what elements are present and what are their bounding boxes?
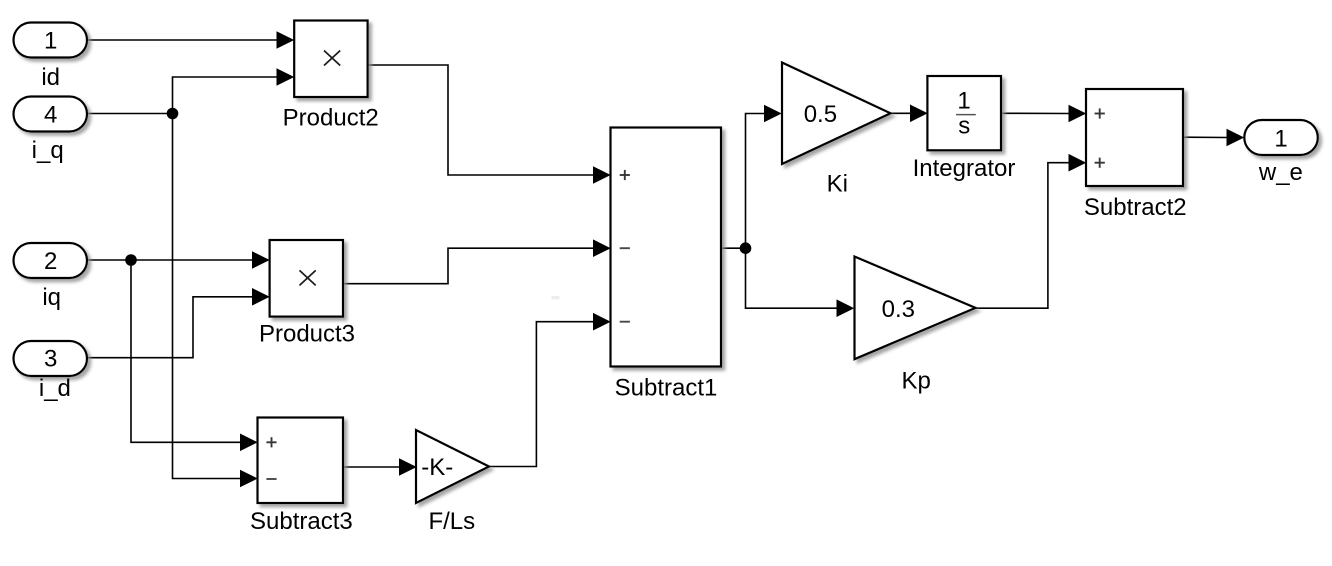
sum block Subtract2 xyxy=(1086,89,1183,186)
svg-text:Subtract2: Subtract2 xyxy=(1084,194,1187,221)
wire Kp out to Subtract2 in2 xyxy=(976,163,1070,309)
svg-text:s: s xyxy=(958,112,970,139)
minus sign Subtract3 xyxy=(266,478,276,480)
wire junction C up to Ki xyxy=(746,114,765,249)
svg-text:4: 4 xyxy=(44,101,57,128)
svg-text:2: 2 xyxy=(44,248,57,275)
gain block Ki xyxy=(782,63,891,165)
svg-text:1: 1 xyxy=(1274,126,1287,153)
wire Subtract3 out to F/Ls xyxy=(343,466,400,468)
sum block Subtract3 xyxy=(258,418,344,504)
svg-text:-K-: -K- xyxy=(421,454,453,481)
minus sign Subtract1 in3 xyxy=(620,321,630,323)
svg-text:F/Ls: F/Ls xyxy=(428,508,475,535)
multiply sign of Product2 xyxy=(324,51,340,66)
svg-text:i_d: i_d xyxy=(39,375,71,402)
svg-text:Subtract1: Subtract1 xyxy=(615,375,718,402)
node A junction dot xyxy=(167,108,179,120)
wire Integrator out to Subtract2 in1 xyxy=(1001,112,1069,114)
svg-text:1: 1 xyxy=(44,28,57,55)
wire junction B down to Subtract3 plus input xyxy=(131,260,241,442)
wire Subtract2 out to output port w_e xyxy=(1183,136,1227,138)
multiply sign of Product3 xyxy=(300,270,316,285)
svg-text:0.5: 0.5 xyxy=(804,101,837,128)
plus sign Subtract2 in2 xyxy=(1095,158,1105,168)
wire port3 to Product3 in2 xyxy=(87,297,253,358)
wire port2 to Product3 in1 xyxy=(87,259,253,261)
wire port4 to junction A xyxy=(87,113,173,115)
node B junction dot xyxy=(125,254,137,266)
wire Product2 out to Subtract1 in1 xyxy=(368,65,594,175)
wire port1 to Product2 in1 xyxy=(87,39,277,41)
sum block Subtract1 xyxy=(611,128,722,367)
wire junction C down to Kp xyxy=(746,248,838,308)
wire junction A up to Product2 in2 xyxy=(173,77,278,114)
wire junction A down to Subtract3 minus input xyxy=(173,114,241,479)
svg-text:i_q: i_q xyxy=(32,137,64,164)
svg-text:1: 1 xyxy=(957,87,970,114)
fraction bar xyxy=(956,114,976,116)
svg-text:Product3: Product3 xyxy=(259,321,355,348)
svg-text:0.3: 0.3 xyxy=(882,296,915,323)
wire F/Ls out to Subtract1 in3 xyxy=(489,322,594,467)
svg-text:w_e: w_e xyxy=(1258,159,1303,186)
wire Ki out to Integrator xyxy=(891,112,911,114)
svg-text:Integrator: Integrator xyxy=(913,155,1016,182)
inport 4 xyxy=(14,97,88,132)
integrator block U=1/s xyxy=(927,76,1001,150)
gain block Kp xyxy=(855,257,976,360)
plus sign Subtract1 in1 xyxy=(620,170,630,180)
product block Product3 xyxy=(270,240,343,317)
svg-text:Kp: Kp xyxy=(902,368,931,395)
inport 1 xyxy=(14,23,88,58)
wire Subtract1 out to junction C xyxy=(721,247,746,249)
wire Product3 out to Subtract1 in2 xyxy=(343,248,594,284)
product block Product2 xyxy=(294,21,367,98)
plus sign Subtract2 in1 xyxy=(1095,108,1105,118)
gain block F/Ls xyxy=(416,430,489,503)
svg-text:Product2: Product2 xyxy=(283,104,379,131)
outport 1 w_e xyxy=(1244,120,1318,155)
svg-text:Ki: Ki xyxy=(827,171,848,198)
svg-text:3: 3 xyxy=(44,346,57,373)
svg-text:iq: iq xyxy=(42,284,61,311)
svg-text:id: id xyxy=(41,64,60,91)
svg-text:Subtract3: Subtract3 xyxy=(250,508,353,535)
node C junction dot xyxy=(740,242,752,254)
minus sign Subtract1 in2 xyxy=(620,247,630,249)
artifact smudge xyxy=(552,296,560,300)
inport 2 xyxy=(14,243,88,278)
plus sign Subtract3 xyxy=(266,437,276,447)
inport 3 xyxy=(14,341,88,376)
